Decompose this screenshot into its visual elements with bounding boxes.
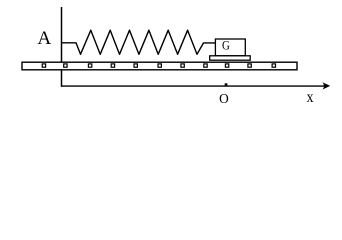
wall (vertical line) <box>61 7 63 87</box>
roller 7 <box>181 64 184 67</box>
x-axis line <box>62 85 328 87</box>
roller 6 <box>158 64 161 67</box>
roller 11 <box>272 64 275 67</box>
svg-text:A: A <box>37 28 51 49</box>
roller 3 <box>88 64 91 67</box>
roller 1 <box>42 64 45 67</box>
roller 4 <box>111 64 114 67</box>
base plate under block <box>210 56 251 60</box>
roller 10 <box>248 64 251 67</box>
roller 9 <box>225 64 228 67</box>
origin tick O <box>225 83 228 86</box>
svg-text:G: G <box>222 39 230 53</box>
roller 8 <box>204 64 207 67</box>
roller 5 <box>134 64 137 67</box>
svg-text:O: O <box>219 91 229 106</box>
plank / board with rollers <box>22 62 297 70</box>
spring <box>62 30 216 54</box>
x-axis arrowhead <box>322 82 330 89</box>
block G (box) <box>215 39 245 56</box>
svg-text:x: x <box>307 89 314 106</box>
roller 2 <box>64 64 67 67</box>
